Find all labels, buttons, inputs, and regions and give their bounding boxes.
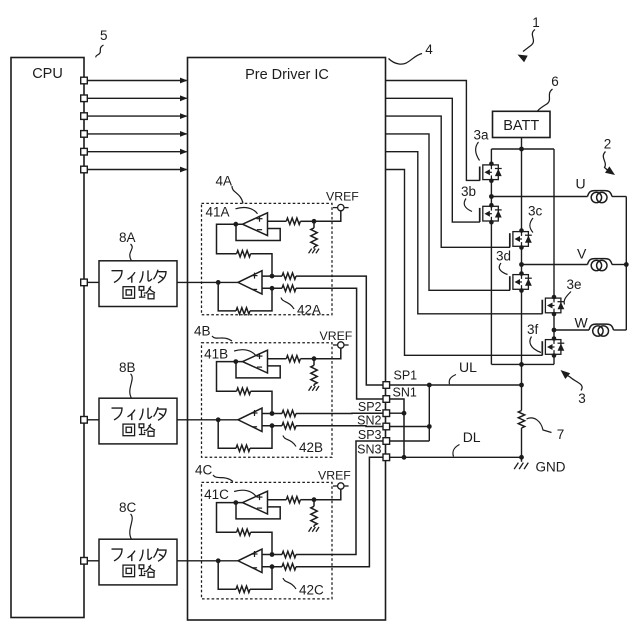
half-bridge column U (3a,3b) <box>490 149 492 164</box>
low-side rail <box>491 363 554 365</box>
shunt resistor 7 <box>518 411 524 429</box>
svg-text:3c: 3c <box>528 204 543 219</box>
wire shunt to GND <box>521 428 523 462</box>
svg-text:4C: 4C <box>195 463 213 478</box>
wire 3a source to U node <box>490 181 492 206</box>
svg-text:2: 2 <box>604 137 612 152</box>
top supply rail <box>491 148 554 150</box>
control wire 3 CPU to Pre Driver IC <box>87 115 186 117</box>
svg-text:SP3: SP3 <box>358 428 382 442</box>
42A - input resistor <box>270 286 275 291</box>
wire 3b source to low rail <box>490 222 492 364</box>
svg-text:U: U <box>576 176 586 192</box>
wire 42A + to SP1 <box>296 276 383 385</box>
phase V line and coil <box>522 264 588 266</box>
svg-text:41C: 41C <box>204 487 229 502</box>
pin SN2 <box>383 423 390 430</box>
half-bridge column W (3e,3f) <box>553 149 555 297</box>
42B + input resistor <box>270 411 275 416</box>
42A feedback resistor <box>250 288 272 311</box>
wire 42C + to SP3 <box>296 441 383 555</box>
filter circuit 8A <box>99 261 177 307</box>
wire 42B - to SN2 <box>296 425 383 428</box>
wire 42B + to SP2 <box>296 412 383 414</box>
phase U line and coil <box>491 196 587 198</box>
wire 42C - to SN3 <box>296 457 383 566</box>
svg-text:7: 7 <box>557 427 565 442</box>
wire SP3 to tie <box>390 440 430 442</box>
svg-text:4A: 4A <box>216 174 233 189</box>
svg-text:DL: DL <box>463 429 481 445</box>
gate wire 1 (to 3a) <box>386 81 480 181</box>
svg-text:SN3: SN3 <box>357 442 381 456</box>
svg-text:SP2: SP2 <box>358 400 382 414</box>
gate wire 2 (to 3b) <box>386 98 480 222</box>
transistor 3d <box>510 271 532 293</box>
control wire 4 CPU to Pre Driver IC <box>87 133 186 135</box>
wire 3d source to low rail <box>521 291 523 365</box>
svg-text:3f: 3f <box>527 322 539 337</box>
gate wire 3 (to 3c) <box>386 116 511 247</box>
wire SP2 to SN tie <box>390 412 404 414</box>
wire CPU to filter 8C <box>87 560 99 562</box>
42C - input resistor <box>270 564 275 569</box>
42C + input resistor <box>270 552 275 557</box>
Pre Driver IC U4 <box>188 58 386 621</box>
svg-text:8B: 8B <box>119 360 136 375</box>
wire 3e source to W node <box>553 314 555 339</box>
transistor 3e <box>542 295 564 317</box>
svg-text:41B: 41B <box>204 347 228 362</box>
wire 3c source to V node <box>521 248 523 274</box>
svg-text:42C: 42C <box>299 583 324 598</box>
svg-text:SN2: SN2 <box>357 414 381 428</box>
42B feedback resistor <box>250 426 272 449</box>
pin SN3 <box>383 454 390 461</box>
wire VREF to 41A + input <box>314 211 341 222</box>
control wire 2 CPU to Pre Driver IC <box>87 97 186 99</box>
wire VREF to 41C + input <box>314 489 341 500</box>
wire filter 8A to amp 42A output <box>177 281 238 283</box>
filter circuit 8B <box>99 398 177 444</box>
svg-text:41A: 41A <box>206 204 230 219</box>
svg-text:SN1: SN1 <box>393 386 417 400</box>
svg-text:VREF: VREF <box>320 329 353 343</box>
op-amp block 4B (dashed) <box>202 343 333 458</box>
svg-text:42A: 42A <box>297 303 321 318</box>
svg-text:CPU: CPU <box>32 66 63 82</box>
op-amp 41C <box>243 491 268 514</box>
42B - input resistor <box>270 423 275 428</box>
svg-text:8C: 8C <box>119 500 137 515</box>
wire VREF to 41B + input <box>314 348 341 359</box>
op-amp 41A <box>243 213 268 236</box>
wire 42A - to SN1 <box>296 288 383 399</box>
motor star point vertical <box>625 197 627 331</box>
wire 41B output / feedback <box>233 359 238 364</box>
op-amp 42C <box>238 549 262 572</box>
wire filter 8C to amp 42C output <box>177 560 238 562</box>
control wire 5 CPU to Pre Driver IC <box>87 151 186 153</box>
ground GND <box>514 463 518 470</box>
svg-text:1: 1 <box>532 15 540 30</box>
svg-text:VREF: VREF <box>318 468 351 482</box>
control wire 6 CPU to Pre Driver IC <box>87 169 186 171</box>
pin SN1 <box>383 396 390 403</box>
op-amp 42B <box>238 408 262 431</box>
svg-text:UL: UL <box>459 359 477 375</box>
resistor divider to ground (B) <box>311 365 317 384</box>
ground (B) <box>309 386 312 391</box>
wire SP1-SN2-SP3 tie vertical <box>428 385 430 441</box>
svg-text:5: 5 <box>100 28 108 43</box>
wire 41C inverting feedback loop <box>236 503 280 519</box>
wire BATT to top rail <box>521 138 523 150</box>
gate wire 5 (to 3e) <box>386 152 543 314</box>
svg-text:6: 6 <box>551 74 559 89</box>
pin SP3 <box>383 438 390 445</box>
svg-text:VREF: VREF <box>326 189 359 203</box>
shunt vertical <box>521 364 523 410</box>
svg-text:SP1: SP1 <box>394 369 418 383</box>
op-amp 42A <box>238 271 262 294</box>
wire 41A inverting feedback loop <box>236 224 280 240</box>
transistor 3a <box>480 162 502 184</box>
wire 41A output / feedback <box>233 222 238 227</box>
half-bridge column V (3c,3d) <box>521 149 523 231</box>
op-amp block 4A (dashed) <box>202 203 333 314</box>
ground (A) <box>309 249 312 254</box>
wire CPU to filter 8A <box>87 281 99 283</box>
wire SN2 to tie <box>390 426 430 428</box>
svg-text:4B: 4B <box>194 324 211 339</box>
wire 41B inverting feedback loop <box>236 362 280 378</box>
gate wire 4 (to 3d) <box>386 134 511 290</box>
op-amp block 4C (dashed) <box>202 482 333 599</box>
svg-text:GND: GND <box>536 460 566 475</box>
resistor divider to ground (A) <box>311 228 317 247</box>
svg-text:42B: 42B <box>299 440 323 455</box>
phase W line and coil <box>554 329 589 331</box>
wire SN3 / DL line <box>390 456 522 458</box>
42A + input resistor <box>270 274 275 279</box>
ground (C) <box>309 527 312 532</box>
op-amp 41B <box>243 350 268 373</box>
svg-text:Pre Driver IC: Pre Driver IC <box>245 67 329 83</box>
CPU block 5 <box>11 58 84 618</box>
42C feedback resistor <box>250 567 272 590</box>
svg-text:3a: 3a <box>474 128 490 143</box>
transistor 3b <box>480 203 502 225</box>
svg-text:3: 3 <box>578 391 586 406</box>
svg-text:W: W <box>575 315 589 331</box>
battery BATT 6 <box>493 111 551 137</box>
wire 3f source to low rail <box>553 356 555 365</box>
resistor divider to ground (C) <box>311 506 317 525</box>
svg-text:BATT: BATT <box>503 118 539 134</box>
svg-text:3b: 3b <box>461 184 476 199</box>
svg-text:3e: 3e <box>567 277 582 292</box>
svg-text:4: 4 <box>425 42 433 57</box>
wire SP1 / UL line <box>390 384 522 386</box>
gate wire 6 (to 3f) <box>386 170 543 356</box>
pin SP2 <box>383 410 390 417</box>
wire SN1 down <box>390 399 404 457</box>
wire filter 8B to amp 42B output <box>177 419 238 421</box>
control wire 1 CPU to Pre Driver IC <box>87 80 186 82</box>
svg-text:8A: 8A <box>119 230 136 245</box>
svg-text:3d: 3d <box>496 249 511 264</box>
transistor 3f <box>542 336 564 358</box>
wire 41C output / feedback <box>233 500 238 505</box>
filter circuit 8C <box>99 539 177 585</box>
pin SP1 <box>383 382 390 389</box>
wire CPU to filter 8B <box>87 419 99 421</box>
svg-text:V: V <box>577 246 587 262</box>
transistor 3c <box>510 228 532 250</box>
